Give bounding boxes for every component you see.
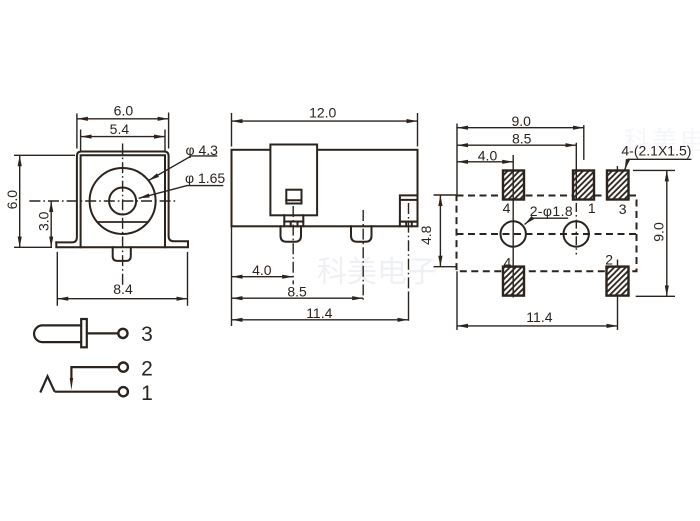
dim 9.0 right: dimension line xyxy=(666,170,668,296)
small circle φ1.65 xyxy=(109,188,136,215)
dim 9.0 right: extension lines xyxy=(633,170,675,296)
svg-text:9.0: 9.0 xyxy=(651,222,667,242)
tab neck xyxy=(284,215,303,221)
fp left extension line xyxy=(456,124,458,331)
pin3 barrel xyxy=(34,325,81,342)
pin3 terminal circle xyxy=(118,329,127,338)
svg-text:4.0: 4.0 xyxy=(478,147,498,163)
svg-text:2: 2 xyxy=(605,252,613,268)
dim 4.0 fp: dimension line xyxy=(457,161,513,163)
svg-text:11.4: 11.4 xyxy=(526,309,552,325)
svg-text:8.5: 8.5 xyxy=(512,131,532,147)
plug tab xyxy=(270,145,317,216)
body rectangle xyxy=(232,150,418,227)
shell outer profile with feet xyxy=(56,152,188,243)
svg-text:8.4: 8.4 xyxy=(113,281,133,297)
svg-text:3: 3 xyxy=(619,201,627,217)
dim 8.4: dimension line xyxy=(57,298,187,300)
big circle φ4.3 xyxy=(90,168,156,234)
svg-text:11.4: 11.4 xyxy=(306,305,332,321)
svg-text:4: 4 xyxy=(503,200,511,216)
svg-text:3: 3 xyxy=(141,323,153,346)
horizontal dashed centerline xyxy=(457,233,637,235)
svg-text:4: 4 xyxy=(504,255,512,271)
pin2 lead with corner xyxy=(71,367,118,378)
pad 2 xyxy=(607,267,629,296)
dim 11.4 fp: dimension line xyxy=(457,325,618,327)
svg-text:φ 1.65: φ 1.65 xyxy=(185,170,225,186)
svg-text:9.0: 9.0 xyxy=(511,113,531,129)
dim 6.0 left: dimension line xyxy=(19,155,21,247)
svg-text:8.5: 8.5 xyxy=(287,284,307,300)
SCHEMATIC SYMBOL xyxy=(34,319,128,396)
dim 8.5 fp: dimension line xyxy=(457,144,576,146)
svg-text:4-(2.1X1.5): 4-(2.1X1.5) xyxy=(621,143,691,159)
svg-text:1: 1 xyxy=(588,200,596,216)
dim 4.8: extension lines xyxy=(434,195,457,267)
pin1 spring zigzag xyxy=(40,376,54,392)
chord line in big circle xyxy=(98,221,148,223)
bottom center pin xyxy=(113,247,131,261)
svg-text:2-φ1.8: 2-φ1.8 xyxy=(530,203,573,219)
pad4 column line through holes xyxy=(512,155,514,298)
right hole vertical centerline xyxy=(575,203,577,255)
PCB LAYOUT VIEW xyxy=(457,196,637,272)
contact window in tab xyxy=(286,190,301,204)
front view horizontal centerline xyxy=(29,200,177,202)
dim 12.0: dimension line xyxy=(232,120,418,122)
hole left 2-φ1.8 xyxy=(501,221,526,246)
svg-text:12.0: 12.0 xyxy=(309,105,336,121)
dim 8.4: extension lines xyxy=(57,252,187,306)
dim 12.0: extension lines xyxy=(232,113,418,147)
svg-text:4.0: 4.0 xyxy=(252,262,272,278)
side contact base boxes xyxy=(400,222,418,227)
pin1 terminal circle xyxy=(119,387,128,396)
pad2 center ticks xyxy=(617,260,619,331)
dim 8.5 side: dimension line xyxy=(232,297,364,299)
svg-text:3.0: 3.0 xyxy=(35,211,51,231)
svg-text:2: 2 xyxy=(141,358,153,381)
dim 3.0: dimension line xyxy=(50,201,52,247)
dim 6.0 top: dimension line xyxy=(77,118,169,120)
shell inner rect xyxy=(81,155,165,247)
dim 4.0 side: dimension line xyxy=(232,276,294,278)
leader φ4.3 xyxy=(149,156,218,181)
centerline side contact xyxy=(408,203,410,292)
pad 3 xyxy=(607,171,629,200)
svg-text:科美电子: 科美电子 xyxy=(317,256,437,289)
side contact pin3 box xyxy=(400,195,418,221)
pin2 terminal circle xyxy=(119,363,128,372)
dim 6.0 top: extension lines xyxy=(77,113,169,149)
pad 4 bottom xyxy=(503,267,524,296)
pad 4 top xyxy=(503,171,524,200)
centerline lug pin2 xyxy=(292,206,294,284)
svg-text:1: 1 xyxy=(141,382,153,405)
leader φ1.65 xyxy=(139,186,224,199)
pin3 flange xyxy=(81,319,87,347)
svg-text:5.4: 5.4 xyxy=(110,121,130,137)
feet bottom line xyxy=(56,242,188,247)
ext of side contact centerline xyxy=(408,292,410,321)
svg-text:6.0: 6.0 xyxy=(4,190,20,210)
dim 5.4: extension lines xyxy=(81,130,165,152)
SIDE VIEW xyxy=(232,145,418,242)
dim 5.4: dimension line xyxy=(81,136,165,138)
solder lug pin1 xyxy=(351,226,372,242)
contact window divider xyxy=(286,199,301,201)
pad1 center ext line (9.0) xyxy=(583,125,585,160)
body outline dashed rect xyxy=(457,196,637,272)
pin3 lead xyxy=(87,332,118,334)
dim 4.8: dimension line xyxy=(439,195,441,267)
leader 2-φ1.8 xyxy=(525,218,569,224)
solder lug pin2 xyxy=(281,226,302,242)
hole right 2-φ1.8 xyxy=(564,221,589,246)
leader 4-(2.1X1.5) xyxy=(625,159,692,170)
svg-text:φ 4.3: φ 4.3 xyxy=(186,142,219,158)
pad3 center tick xyxy=(616,166,618,171)
svg-text:4.8: 4.8 xyxy=(418,225,434,245)
pad 1 xyxy=(573,171,594,200)
tab neck base boxes xyxy=(284,222,303,227)
dim 9.0 fp: dimension line xyxy=(457,127,584,129)
left body edge extended down xyxy=(231,226,233,326)
line through pad1 to right hole (8.5 ext) xyxy=(575,143,577,200)
dim 11.4 side: dimension line xyxy=(232,319,409,321)
centerline lug pin1 xyxy=(362,210,364,300)
pin1 lead xyxy=(55,391,119,393)
svg-text:6.0: 6.0 xyxy=(114,103,134,119)
dim 6.0 left: extension lines xyxy=(14,155,75,247)
front view vertical centerline xyxy=(122,144,124,286)
pin2 switch arrow xyxy=(70,378,73,390)
